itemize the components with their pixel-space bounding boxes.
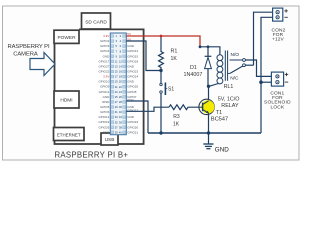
header pin row 23-24 — [99, 90, 137, 94]
svg-text:14: 14 — [119, 65, 122, 69]
wire 5V red — [127, 36, 201, 47]
svg-text:34: 34 — [119, 115, 122, 119]
header pin row 25-26 — [103, 95, 137, 99]
header pin row 3-4 — [100, 37, 131, 43]
svg-text:GPIO27: GPIO27 — [98, 64, 109, 68]
header pin row 39-40 — [103, 130, 139, 134]
svg-text:18: 18 — [119, 75, 122, 79]
ground rail wire — [148, 132, 261, 134]
svg-text:GPIO13: GPIO13 — [98, 115, 109, 119]
svg-text:35: 35 — [115, 120, 118, 124]
svg-text:25: 25 — [115, 95, 118, 99]
relay N/O contact — [230, 59, 243, 61]
header pin row 11-12 — [98, 59, 138, 63]
svg-text:LOCK: LOCK — [270, 105, 284, 111]
camera arrow — [30, 53, 55, 76]
relay RL1 coil — [209, 55, 223, 87]
resistor R1 — [159, 36, 164, 71]
svg-text:T1: T1 — [216, 110, 222, 116]
svg-text:33: 33 — [115, 115, 118, 119]
header pin row 13-14 — [98, 64, 134, 68]
svg-text:15: 15 — [115, 70, 118, 74]
svg-text:RELAY: RELAY — [221, 103, 239, 109]
resistor R3 — [169, 105, 200, 110]
node A junction — [159, 69, 162, 72]
svg-text:HDMI: HDMI — [60, 98, 72, 104]
svg-text:POWER: POWER — [57, 35, 76, 41]
wire GPIO to R3 — [127, 107, 170, 111]
svg-text:N/C: N/C — [230, 75, 239, 81]
diode D1 1N4007 — [207, 47, 209, 57]
wire GPIO to node A — [127, 41, 162, 71]
svg-text:GPIO4: GPIO4 — [100, 49, 110, 53]
wire collector — [208, 86, 210, 101]
svg-text:24: 24 — [119, 90, 122, 94]
transistor T1 BC547 — [199, 99, 215, 114]
wire CON2 minus to rail — [261, 17, 273, 133]
svg-text:S1: S1 — [168, 87, 174, 93]
wire GND pin to rail — [127, 101, 149, 133]
svg-text:USB: USB — [105, 137, 115, 143]
svg-text:GND: GND — [127, 115, 135, 119]
svg-text:32: 32 — [119, 110, 122, 114]
svg-text:GPIO14: GPIO14 — [127, 49, 138, 53]
svg-text:38: 38 — [119, 125, 122, 129]
svg-text:GPIO23: GPIO23 — [127, 69, 138, 73]
header pin row 33-34 — [98, 115, 134, 119]
svg-text:27: 27 — [115, 100, 118, 104]
SD CARD slot — [82, 13, 111, 29]
svg-text:GPIO21: GPIO21 — [127, 130, 138, 134]
wire CON2 plus to pole — [254, 12, 273, 65]
svg-text:36: 36 — [119, 120, 122, 124]
svg-text:N/O: N/O — [231, 52, 240, 58]
svg-text:31: 31 — [115, 110, 118, 114]
connector CON1 — [271, 72, 288, 86]
svg-text:RL1: RL1 — [224, 84, 234, 90]
header pin row 1-2 — [103, 32, 131, 38]
svg-text:RASPBERRY PI B+: RASPBERRY PI B+ — [55, 151, 129, 160]
svg-text:RASPBERRY PI: RASPBERRY PI — [7, 44, 49, 50]
USB port — [101, 133, 118, 145]
POWER port — [54, 30, 79, 43]
svg-text:23: 23 — [115, 90, 118, 94]
svg-text:GPIO22: GPIO22 — [98, 69, 109, 73]
header pin row 31-32 — [100, 108, 138, 114]
junction CON1 minus — [259, 80, 263, 84]
svg-text:20: 20 — [119, 80, 122, 84]
svg-text:GND: GND — [103, 54, 111, 58]
svg-text:GPIO6: GPIO6 — [100, 110, 110, 114]
switch S1 — [160, 71, 162, 84]
svg-text:GND: GND — [127, 80, 135, 84]
svg-text:5V, 1C/O: 5V, 1C/O — [218, 96, 240, 102]
svg-text:37: 37 — [115, 125, 118, 129]
svg-text:17: 17 — [115, 75, 118, 79]
svg-text:GPIO20: GPIO20 — [127, 125, 138, 129]
svg-text:GPIO15: GPIO15 — [127, 54, 138, 58]
svg-text:GND: GND — [103, 95, 111, 99]
junction R1 top on 5V — [160, 35, 163, 38]
outer frame — [3, 6, 300, 160]
svg-text:GPIO19: GPIO19 — [98, 120, 109, 124]
svg-text:11: 11 — [115, 59, 118, 63]
svg-text:1N4007: 1N4007 — [184, 72, 203, 78]
svg-text:SD CARD: SD CARD — [85, 19, 107, 25]
connector CON2 — [273, 8, 288, 21]
svg-text:26: 26 — [119, 95, 122, 99]
header pin row 35-36 — [98, 120, 138, 124]
wire coil top node — [200, 47, 220, 55]
svg-text:19: 19 — [115, 80, 118, 84]
svg-text:GPIO16: GPIO16 — [127, 120, 138, 124]
svg-text:GND: GND — [103, 130, 111, 134]
header pin row 5-6 — [100, 44, 135, 48]
relay pole — [243, 64, 246, 67]
svg-text:12: 12 — [119, 59, 122, 63]
svg-text:40: 40 — [119, 130, 122, 134]
svg-text:GPIO2: GPIO2 — [100, 39, 110, 43]
svg-text:1K: 1K — [173, 122, 180, 128]
svg-text:29: 29 — [115, 105, 118, 109]
svg-text:ETHERNET: ETHERNET — [57, 132, 81, 137]
svg-text:R1: R1 — [171, 48, 178, 54]
svg-text:21: 21 — [115, 85, 118, 89]
wire S1 to ground rail — [160, 93, 162, 133]
svg-text:GPIO26: GPIO26 — [98, 125, 109, 129]
svg-text:GPIO17: GPIO17 — [98, 59, 109, 63]
header pin row 9-10 — [103, 54, 139, 58]
svg-text:GND: GND — [127, 44, 135, 48]
header pin row 27-28 — [102, 98, 135, 104]
svg-text:+12V: +12V — [272, 37, 284, 43]
svg-text:GPIO8: GPIO8 — [127, 90, 137, 94]
svg-text:10: 10 — [119, 54, 122, 58]
header pin row 15-16 — [98, 69, 138, 73]
header pin row 17-18 — [103, 75, 138, 79]
header pin row 29-30 — [100, 105, 135, 109]
svg-text:GPIO11: GPIO11 — [99, 90, 110, 94]
header pin row 21-22 — [100, 85, 138, 89]
svg-text:GPIO24: GPIO24 — [127, 75, 138, 79]
svg-text:GPIO3: GPIO3 — [100, 44, 110, 48]
ETHERNET port — [54, 128, 85, 141]
ground — [208, 133, 210, 144]
svg-text:30: 30 — [119, 105, 122, 109]
svg-text:GPIO18: GPIO18 — [127, 59, 138, 63]
svg-text:CAMERA: CAMERA — [13, 52, 38, 58]
svg-text:IDSD: IDSD — [102, 100, 110, 104]
svg-text:13: 13 — [115, 65, 118, 69]
svg-text:GPIO25: GPIO25 — [127, 85, 138, 89]
node B junction — [207, 85, 210, 88]
svg-text:39: 39 — [115, 130, 118, 134]
svg-text:28: 28 — [119, 100, 122, 104]
svg-text:D1: D1 — [190, 65, 197, 71]
relay armature — [230, 66, 243, 73]
wire emitter — [208, 113, 210, 133]
svg-text:3.3V: 3.3V — [103, 75, 109, 79]
HDMI port — [54, 91, 79, 108]
svg-text:GND: GND — [127, 64, 135, 68]
svg-text:3.3V: 3.3V — [103, 34, 109, 38]
svg-text:R3: R3 — [173, 114, 180, 120]
header pin row 37-38 — [98, 125, 138, 129]
svg-text:22: 22 — [119, 85, 122, 89]
GPIO header connector — [110, 33, 126, 135]
header pin row 7-8 — [100, 49, 138, 53]
Raspberry Pi board outline — [55, 30, 144, 145]
svg-text:GND: GND — [215, 146, 229, 153]
svg-text:GPIO10: GPIO10 — [98, 80, 109, 84]
svg-text:16: 16 — [119, 70, 122, 74]
svg-text:1K: 1K — [171, 56, 178, 62]
svg-text:GPIO5: GPIO5 — [100, 105, 110, 109]
header pin row 19-20 — [98, 80, 134, 84]
relay core — [224, 51, 226, 81]
svg-text:GPIO9: GPIO9 — [100, 85, 110, 89]
svg-text:BC547: BC547 — [211, 116, 228, 122]
